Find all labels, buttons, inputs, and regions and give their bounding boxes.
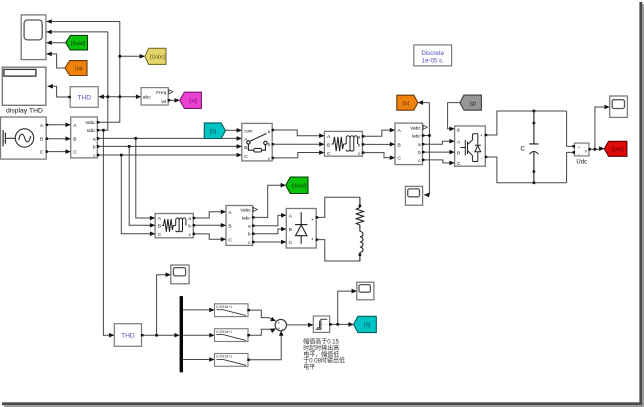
wire phase c to breaker C: [97, 154, 241, 156]
svg-text:B: B: [228, 223, 231, 229]
svg-text:Iabc: Iabc: [242, 215, 252, 220]
wire meas3 Iabc up to Iload tag: [253, 185, 285, 217]
wire meas2 b to inverter B: [423, 151, 454, 153]
wire Iabc branch down to THD2: [103, 130, 113, 335]
THD1 block: [68, 87, 104, 108]
wire bus bar to ratelimiter1: [183, 309, 214, 311]
svg-text:a: a: [248, 224, 251, 229]
svg-text:com: com: [244, 128, 253, 133]
scope Scope4: [352, 282, 374, 300]
wire relay output to S tag and scope4: [330, 291, 356, 324]
svg-text:THD: THD: [121, 333, 135, 340]
wire breaker a to RLC1 A: [272, 130, 323, 136]
svg-text:[Iload]: [Iload]: [292, 183, 307, 189]
relay block: [308, 316, 332, 332]
wire source A to meas1 A: [46, 124, 70, 126]
svg-text:[S]: [S]: [364, 323, 371, 329]
svg-text:display THD: display THD: [6, 107, 43, 114]
svg-text:+: +: [282, 327, 285, 332]
junction node Udc: [593, 148, 596, 151]
scope Scope3: [405, 186, 429, 205]
wire display THD input from THD1: [48, 86, 71, 97]
rate limiter block 1: [209, 304, 250, 317]
From tag [S] breaker control: [204, 123, 225, 139]
wire scope1 input3 from Iload tag: [47, 42, 66, 44]
wire phase b branch down to RLC2 B: [129, 146, 154, 225]
Goto tag [Iload] middle: [281, 177, 308, 194]
three-phase VI measurement block 3: [221, 206, 257, 246]
wire to Uabc tag: [120, 55, 144, 57]
junction node Is: [428, 134, 431, 137]
svg-text:C: C: [398, 156, 402, 162]
From tag [g]: [460, 95, 482, 110]
svg-text:[Iload]: [Iload]: [71, 41, 86, 47]
svg-text:C: C: [457, 161, 461, 167]
Goto tag [Is]: [397, 95, 423, 110]
svg-text:Udc: Udc: [576, 160, 587, 166]
wire bus bar to ratelimiter2: [183, 334, 214, 336]
wire bus bar to ratelimiter3: [183, 359, 214, 361]
svg-text:B: B: [158, 224, 161, 230]
Goto tag [wt]: [175, 92, 202, 108]
junction node THD2 out: [155, 334, 158, 337]
wire meas3 a to bridge A: [253, 215, 286, 225]
svg-text:B: B: [40, 137, 43, 143]
wire inverter minus to dc bottom rail: [485, 157, 566, 183]
svg-text:C: C: [158, 232, 162, 238]
svg-text:a: a: [418, 142, 421, 147]
svg-text:b: b: [248, 232, 251, 237]
wire source C to meas1 C: [46, 151, 70, 153]
svg-text:Iabc: Iabc: [412, 134, 422, 139]
svg-text:[Is]: [Is]: [402, 101, 409, 107]
svg-text:[Uabc]: [Uabc]: [150, 54, 166, 60]
svg-text:时起时输出高: 时起时输出高: [303, 344, 339, 352]
universal bridge inverter block: [449, 126, 487, 167]
svg-text:B: B: [73, 137, 76, 143]
wire inverter plus to dc top rail: [485, 111, 566, 135]
three-phase breaker block: [237, 123, 275, 161]
wire phase b to breaker B: [97, 145, 241, 147]
svg-text:b: b: [418, 150, 421, 155]
svg-text:C: C: [73, 150, 77, 156]
three-phase series RLC branch 1: [319, 131, 364, 157]
wire meas3 b to bridge B: [253, 229, 286, 234]
window border right: [639, 2, 642, 405]
svg-text:C: C: [244, 154, 248, 160]
diode rectifier bridge block: [281, 209, 318, 249]
svg-text:+: +: [278, 326, 281, 331]
wire meas2 a to inverter A: [423, 141, 454, 144]
svg-text:于0.08时输出低: 于0.08时输出低: [303, 357, 345, 365]
svg-text:B: B: [244, 145, 247, 151]
svg-text:Discrete: Discrete: [421, 50, 444, 57]
svg-text:a: a: [268, 129, 271, 134]
capacitor C: [520, 111, 538, 183]
junction node Vabc-Uabc: [118, 55, 121, 58]
wire ratelimiter1 to sum: [248, 310, 275, 321]
Freq measurement block: [136, 88, 173, 105]
junction node phase c: [120, 154, 123, 157]
svg-text:Vabc: Vabc: [85, 120, 96, 125]
svg-text:0.0015s+1: 0.0015s+1: [216, 330, 232, 334]
svg-text:C: C: [520, 146, 525, 152]
wire phase a branch down to RLC2 A: [136, 138, 155, 218]
svg-text:B: B: [457, 150, 460, 156]
wire phase a to breaker A: [97, 137, 241, 139]
svg-text:电平: 电平: [303, 363, 315, 371]
junction node dc top rail: [532, 110, 535, 113]
series RL load: [356, 197, 363, 261]
wire meas2 Iabc to Is tag and scope3: [420, 103, 430, 195]
wire sum to relay: [286, 324, 312, 326]
scope Scope6 top right: [605, 96, 628, 117]
voltage measurement Udc: [573, 143, 591, 165]
Goto tag [Uabc]: [140, 48, 166, 64]
svg-text:C: C: [228, 237, 232, 243]
wire RLC2 c to meas3 C: [193, 234, 225, 239]
wire RLC1 c to meas2 C: [362, 153, 394, 158]
wire RLC2 a to meas3 A: [193, 212, 225, 218]
svg-text:b: b: [268, 142, 271, 147]
three-phase VI measurement block 1: [66, 117, 100, 158]
junction node phase a: [134, 137, 137, 140]
mux bus bar: [174, 296, 183, 372]
svg-text:Vabc: Vabc: [410, 125, 421, 130]
wire g tag to inverter g: [448, 103, 460, 129]
svg-text:电平，幅值低: 电平，幅值低: [303, 350, 339, 358]
wire ratelimiter2 to sum: [248, 329, 275, 336]
scope Scope5: [166, 265, 190, 284]
junction node Vabc-Freq: [118, 95, 121, 98]
display THD block: [2, 67, 53, 114]
svg-text:abc: abc: [143, 95, 151, 101]
wire bridge plus to load top: [316, 197, 360, 217]
window shadow bottom: [4, 405, 644, 407]
Goto tag [S] bottom: [348, 316, 376, 332]
svg-text:1e-05 s.: 1e-05 s.: [422, 57, 445, 64]
svg-text:[Udc]: [Udc]: [612, 147, 625, 153]
svg-text:C: C: [40, 150, 44, 156]
svg-text:+: +: [278, 320, 281, 325]
wire RLC1 b to meas2 B: [362, 143, 394, 145]
powergui Discrete block: [414, 45, 452, 66]
svg-text:+: +: [480, 133, 483, 138]
window shadow right: [642, 4, 644, 407]
svg-text:0.0015s+1: 0.0015s+1: [216, 305, 232, 309]
wire THD2 branch up to scope5: [157, 275, 170, 336]
wire breaker c to RLC1 C: [272, 153, 323, 158]
svg-text:Vabc: Vabc: [240, 208, 251, 213]
rate limiter block 3: [209, 354, 250, 367]
Goto tag [Udc]: [599, 141, 627, 156]
junction node Iabc-THD2: [102, 129, 105, 132]
svg-text:[wt]: [wt]: [189, 99, 198, 105]
junction node Iabc-THD1: [106, 95, 109, 98]
scope Scope1: [21, 15, 52, 60]
wire THD1 input / Freq abc input line: [99, 96, 140, 98]
wire ratelimiter3 to sum: [248, 332, 281, 360]
wire scope1 input2 from Iabc vertical: [47, 32, 108, 130]
wire breaker b to RLC1 B: [272, 143, 323, 145]
rate limiter block 2: [209, 329, 250, 342]
junction node relay out: [336, 323, 339, 326]
svg-text:a: a: [188, 216, 191, 221]
junction node dc bottom rail: [532, 181, 535, 184]
svg-text:THD: THD: [77, 95, 91, 102]
window border bottom: [2, 402, 642, 405]
wire bridge minus to load bottom: [316, 240, 360, 261]
svg-text:Iabc: Iabc: [87, 128, 97, 133]
three-phase source block: [1, 117, 49, 159]
wire phase c branch down to RLC2 C: [121, 155, 154, 234]
svg-text:a: a: [93, 136, 96, 141]
svg-text:0.0015s+1: 0.0015s+1: [216, 355, 232, 359]
THD2 block: [109, 324, 143, 347]
sum block: [270, 317, 286, 336]
wire S tag to breaker com: [225, 129, 241, 131]
wire meas3 c to bridge C: [253, 241, 286, 243]
junction node phase b: [128, 145, 131, 148]
svg-text:幅值高于0.15: 幅值高于0.15: [303, 338, 339, 346]
svg-text:B: B: [398, 142, 401, 148]
wire Freq wt output to wt tag: [168, 99, 179, 101]
svg-text:wt: wt: [161, 99, 167, 105]
wire RLC2 b to meas3 B: [193, 224, 225, 226]
wire RLC1 a to meas2 A: [362, 130, 394, 136]
svg-text:C: C: [327, 151, 331, 157]
svg-text:Freq: Freq: [156, 90, 166, 96]
wire meas2 c to inverter C: [423, 160, 454, 163]
svg-text:B: B: [289, 227, 292, 233]
wire scope1 input4 from Ia tag: [47, 54, 66, 68]
svg-text:b: b: [93, 144, 96, 149]
svg-text:g: g: [457, 127, 460, 132]
From tag [Iload] top: [66, 35, 88, 50]
three-phase series RLC branch 2: [150, 214, 195, 238]
wire source B to meas1 B: [46, 138, 70, 140]
svg-text:C: C: [289, 240, 293, 246]
svg-text:[g]: [g]: [470, 101, 476, 107]
From tag [Ia]: [65, 61, 87, 76]
svg-text:b: b: [188, 224, 191, 229]
svg-text:[S]: [S]: [210, 129, 217, 135]
wire dc right edge to Udc inputs: [567, 111, 574, 183]
wire THD2 output to bus bar: [142, 334, 179, 336]
wire scope1 input1 from Vabc vertical: [47, 22, 120, 123]
svg-text:B: B: [327, 142, 330, 148]
annotation chinese text: [303, 338, 345, 371]
svg-text:[Ia]: [Ia]: [75, 66, 83, 72]
wire Udc output to Udc tag and scope6: [589, 107, 609, 149]
three-phase VI measurement block 2: [390, 123, 427, 165]
